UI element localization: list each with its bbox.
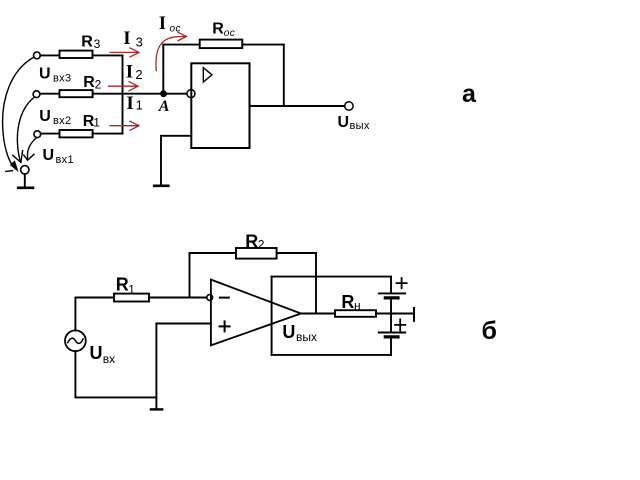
feedback wire to R2 [190, 252, 237, 254]
feedback wire down to output [315, 253, 317, 314]
wire (vertical bus) [122, 55, 124, 133]
svg-text:U: U [39, 108, 51, 125]
label Roc [212, 21, 235, 39]
resistor Roc [200, 40, 243, 49]
label R3 [81, 34, 100, 52]
feedback wire down to output [283, 45, 285, 106]
supply box top wire [272, 276, 391, 278]
svg-text:I: I [126, 93, 133, 114]
common input terminal circle [21, 166, 29, 174]
label U_vx (bottom) [90, 343, 116, 366]
svg-text:2: 2 [135, 67, 142, 82]
label б [482, 317, 497, 345]
svg-text:R: R [212, 21, 224, 38]
label U_vx1 [43, 147, 74, 166]
svg-text:вх3: вх3 [53, 72, 71, 84]
wire down left [155, 324, 157, 398]
svg-text:1: 1 [128, 283, 135, 297]
svg-text:2: 2 [258, 238, 265, 252]
wire [93, 133, 123, 135]
source bottom wire [75, 351, 156, 397]
svg-text:U: U [43, 147, 55, 164]
input terminal circle U_vx2 [33, 91, 40, 98]
svg-text:вых: вых [350, 120, 370, 132]
resistor R1 (bottom) [114, 294, 149, 302]
node A [160, 90, 167, 97]
output wire [250, 105, 345, 107]
svg-text:R: R [341, 292, 354, 312]
label R2 (bottom) [245, 232, 265, 252]
output end bar terminal [413, 308, 415, 321]
plus sign [220, 321, 230, 331]
ground (inputs) [18, 174, 33, 188]
op-amp triangle U2 [211, 280, 301, 346]
svg-text:R: R [116, 275, 129, 295]
svg-text:1: 1 [93, 116, 100, 130]
label U_vx2 [39, 108, 71, 127]
battery stack wire [390, 337, 392, 355]
svg-text:A: A [158, 98, 170, 115]
feedback wire horizontal right [242, 44, 283, 46]
inverting input bubble [207, 295, 213, 301]
input terminal circle U_vx1 [34, 131, 41, 138]
svg-text:б: б [482, 317, 497, 345]
curved arrow from U_vx2 terminal to common point [13, 98, 34, 162]
feedback wire up from node A [162, 45, 164, 94]
svg-text:U: U [90, 343, 103, 363]
label I3 [123, 28, 143, 50]
current arrow I3 (red) [110, 48, 139, 57]
op-amp U1 rectangle [191, 63, 249, 148]
battery B2 long plate [379, 332, 405, 334]
svg-text:вых: вых [296, 330, 317, 344]
wire [93, 54, 123, 56]
wire [40, 54, 59, 56]
curved arrow from U_vx1 terminal to common point [24, 138, 36, 160]
svg-text:R: R [245, 232, 258, 252]
label R1 (bottom) [116, 275, 136, 297]
svg-text:а: а [462, 80, 477, 108]
svg-text:U: U [39, 65, 51, 82]
svg-text:н: н [354, 299, 361, 313]
minus sign [220, 297, 229, 299]
battery B2 short plate [385, 335, 398, 338]
resistor R2 [60, 90, 93, 97]
feedback wire horizontal [163, 44, 199, 46]
svg-text:I: I [159, 13, 166, 34]
svg-text:1: 1 [136, 98, 143, 113]
wire op-amp to ground [161, 136, 191, 185]
battery stack wire [390, 298, 392, 332]
wire [40, 93, 60, 95]
label Rn [341, 292, 360, 313]
label I1 [126, 93, 142, 114]
battery B1 short plate [385, 296, 398, 299]
input terminal circle U_vx3 [34, 52, 41, 59]
label U_vyh (bottom) [282, 322, 317, 344]
svg-text:вх: вх [103, 352, 115, 366]
wire source to R1 [75, 298, 114, 331]
svg-text:R: R [81, 34, 93, 51]
label R1 [83, 113, 100, 130]
source U_vx circle [65, 330, 86, 351]
resistor Rn (load) [335, 310, 376, 317]
resistor R3 [60, 51, 93, 58]
plus sign B1 [397, 278, 407, 288]
wire to node A [93, 93, 164, 95]
wire [41, 133, 60, 135]
current arrow Ioc (red curved) [156, 32, 187, 70]
op-amp triangle mark [203, 68, 212, 82]
current arrow I1 (red) [110, 121, 139, 130]
svg-text:2: 2 [95, 78, 102, 92]
ground (op-amp a) [154, 185, 168, 188]
wire R1 to op-amp [149, 297, 207, 299]
battery B1 long plate [379, 292, 405, 294]
plus sign B2 [395, 319, 405, 330]
curved arrow from U_vx3 terminal to common point [3, 58, 33, 172]
source sine wave [68, 338, 83, 343]
output wire with load [301, 313, 414, 315]
ground (bottom circuit) [151, 397, 162, 409]
label U_vx3 [39, 65, 71, 84]
label I2 [126, 62, 143, 83]
resistor R2 (bottom) [236, 248, 277, 259]
label а [462, 80, 477, 108]
current arrow I2 (red) [109, 82, 139, 91]
supply box left wire [271, 277, 273, 355]
svg-text:3: 3 [136, 35, 143, 50]
wire node A to op-amp input [163, 93, 187, 95]
label U_vyh (top) [338, 114, 370, 132]
non-inverting input wire [156, 323, 211, 325]
resistor R1 [60, 130, 93, 137]
svg-text:U: U [338, 114, 350, 131]
label R2 [83, 74, 101, 91]
svg-text:I: I [126, 62, 133, 83]
feedback wire right [277, 252, 316, 254]
label A [158, 98, 170, 115]
svg-text:R: R [83, 74, 95, 91]
svg-text:вх1: вх1 [56, 154, 74, 166]
supply box bottom wire [272, 354, 391, 356]
svg-text:3: 3 [94, 37, 101, 51]
op-amp input bubble [187, 90, 195, 98]
output terminal circle [345, 102, 353, 110]
svg-text:вх2: вх2 [53, 115, 71, 127]
svg-text:I: I [123, 28, 130, 49]
svg-text:ос: ос [224, 28, 235, 39]
label Ioc [159, 13, 181, 35]
svg-text:ос: ос [170, 24, 181, 35]
svg-text:U: U [282, 322, 295, 342]
feedback tap up [189, 253, 191, 298]
battery stack wire [390, 277, 392, 294]
